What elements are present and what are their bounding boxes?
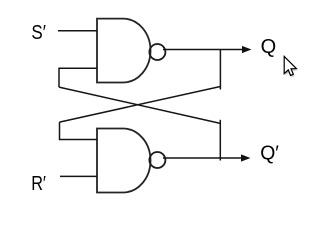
wire: S' input to U1 pin 1: [58, 30, 97, 32]
arrowhead at Q': [241, 154, 251, 161]
wire: U1 pin 2 vertical segment: [58, 68, 60, 88]
wire: feedback diagonal from Q branch to U2 pin 1: [60, 87, 221, 123]
wire: U1 pin 2 horizontal segment: [59, 67, 97, 69]
output bubble of U1: [149, 44, 165, 60]
nand gate U1 (top): [97, 19, 151, 83]
svg-text:R′: R′: [31, 173, 46, 195]
arrowhead at Q: [242, 46, 252, 53]
nand gate U2 (bottom): [97, 129, 151, 193]
mouse cursor: [284, 57, 297, 78]
wire: U2 pin 1 horizontal segment: [60, 139, 98, 141]
wire: Q' output: [163, 157, 242, 159]
svg-text:Q′: Q′: [260, 142, 279, 164]
svg-text:Q: Q: [261, 36, 277, 58]
wire: U2 pin 1 vertical segment: [59, 122, 61, 140]
wire: R' input to U2 pin 2: [60, 175, 97, 177]
wire: Q branch vertical: [219, 50, 221, 90]
wire: feedback diagonal from Q' branch to U1 pin 2: [59, 87, 220, 123]
wire: Q' branch vertical: [219, 120, 221, 161]
output bubble of U2: [149, 152, 165, 168]
svg-text:S′: S′: [31, 22, 46, 44]
wire: Q output: [163, 49, 243, 51]
